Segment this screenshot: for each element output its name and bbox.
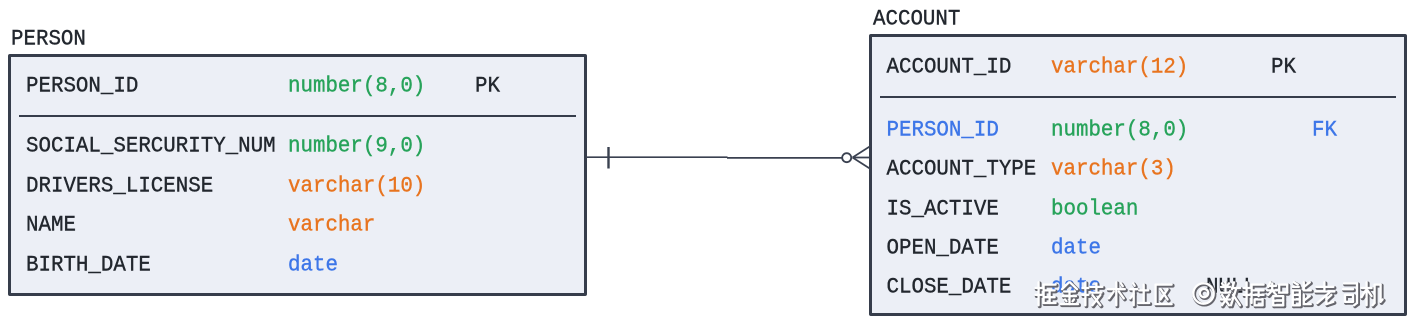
separator PERSON [19, 115, 576, 117]
entity table PERSON [8, 54, 587, 296]
crow's foot many [853, 157, 870, 159]
cardinality one tick [607, 147, 609, 169]
watermark juejin tech community vector strokes [1030, 274, 1409, 320]
table label PERSON [11, 29, 86, 51]
row BIRTH_DATE [26, 255, 151, 277]
entity table ACCOUNT [869, 34, 1407, 316]
row SOCIAL_SERCURITY_NUM [26, 137, 276, 159]
row ACCOUNT_TYPE [887, 159, 1037, 181]
row IS_ACTIVE [887, 199, 999, 221]
row ACCOUNT_ID [887, 57, 1012, 79]
row CLOSE_DATE [887, 277, 1012, 299]
cardinality zero circle [842, 153, 851, 162]
wire horizontal connector [586, 156, 728, 158]
row PERSON_ID (FK) [887, 120, 999, 142]
row NAME [26, 216, 76, 238]
row DRIVERS_LICENSE [26, 176, 213, 198]
table label ACCOUNT [873, 9, 960, 31]
row PERSON_ID [26, 76, 138, 98]
row OPEN_DATE [887, 238, 999, 260]
separator ACCOUNT [880, 96, 1396, 98]
wire horizontal connector right segment [727, 157, 842, 159]
